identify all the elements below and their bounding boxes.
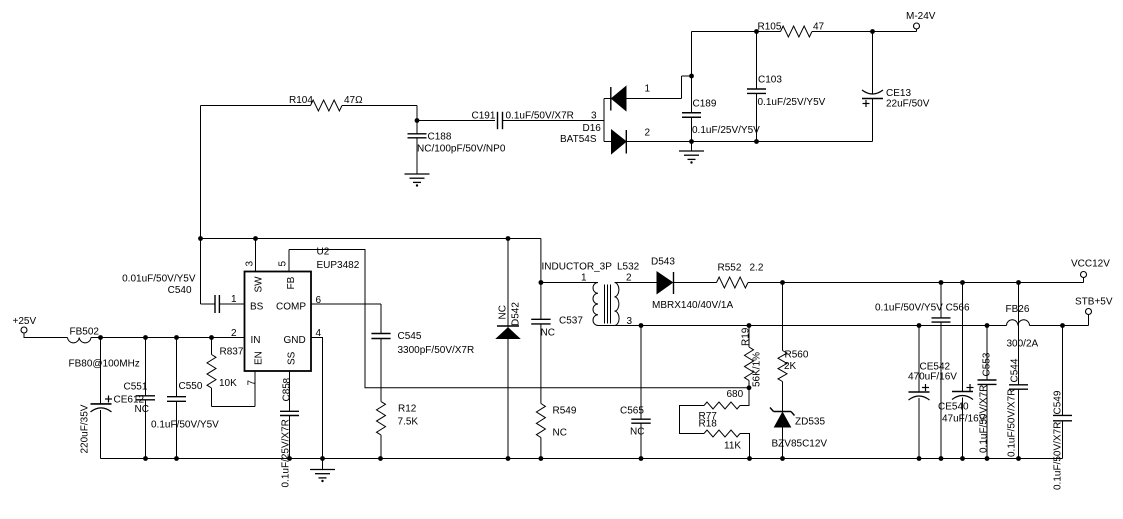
svg-text:1: 1 <box>231 294 237 305</box>
resistor R104 <box>311 100 343 111</box>
wire +25V to FB502 <box>24 333 68 338</box>
node C103 bottom <box>754 139 759 144</box>
svg-text:5: 5 <box>278 261 289 267</box>
node R12 bottom <box>378 456 383 461</box>
capacitor C191 <box>497 112 499 129</box>
svg-text:2: 2 <box>626 273 632 284</box>
svg-text:R560: R560 <box>785 350 809 361</box>
inductor L532 left winding <box>593 283 598 326</box>
svg-text:0.1uF/50V/X7R: 0.1uF/50V/X7R <box>1053 422 1064 490</box>
capacitor C540 <box>214 295 216 313</box>
svg-text:SS: SS <box>287 351 298 365</box>
inductor L532 right winding <box>615 283 620 326</box>
svg-text:680: 680 <box>727 389 744 400</box>
terminal M-24V <box>914 23 920 29</box>
svg-text:C550: C550 <box>179 381 203 392</box>
ground symbol main <box>322 459 324 470</box>
node C566 top on VCC rail <box>939 280 944 285</box>
node C551 top <box>143 335 148 340</box>
resistor R560 <box>782 283 784 351</box>
svg-text:C537: C537 <box>559 316 583 327</box>
node C553 bottom <box>985 456 990 461</box>
svg-text:0.1uF/50V/Y5V: 0.1uF/50V/Y5V <box>151 420 219 431</box>
svg-text:U2: U2 <box>317 247 330 258</box>
node D542 bottom <box>506 456 511 461</box>
capacitor C537 <box>540 283 542 320</box>
node CE542 bottom <box>917 456 922 461</box>
capacitor C550 <box>176 338 178 397</box>
node R19 top on STB rail <box>747 323 752 328</box>
node C189 bottom <box>689 139 694 144</box>
svg-text:R552: R552 <box>718 263 742 274</box>
svg-text:SW: SW <box>254 276 265 293</box>
node D16 pin1 / C189 <box>689 74 694 79</box>
op-amp U2 EUP3482 regulator box <box>245 272 312 372</box>
svg-text:IN: IN <box>251 335 261 346</box>
pin 5 FB stub <box>288 250 290 272</box>
capacitor CE612 electrolytic <box>100 338 102 404</box>
wire C191 left <box>417 120 495 122</box>
svg-text:R837: R837 <box>220 347 244 358</box>
node C544 top on VCC rail <box>1016 280 1021 285</box>
wire R105 right to M-24V terminal <box>812 31 917 33</box>
node C85 bottom <box>287 456 292 461</box>
svg-text:C553: C553 <box>982 352 993 376</box>
capacitor C85 <box>280 410 299 412</box>
capacitor CE542 electrolytic <box>918 326 920 393</box>
capacitor C565 <box>640 326 642 420</box>
svg-text:CE13: CE13 <box>886 88 911 99</box>
svg-text:56K/1%: 56K/1% <box>752 352 763 387</box>
capacitor C549 <box>1062 326 1064 416</box>
svg-text:0.1uF/25V/Y5V: 0.1uF/25V/Y5V <box>758 97 826 108</box>
wire SS pin 8 / C85 <box>289 371 291 411</box>
svg-text:NC: NC <box>135 404 149 415</box>
node R18 bottom <box>747 456 752 461</box>
svg-text:GND: GND <box>284 335 306 346</box>
svg-text:22uF/50V: 22uF/50V <box>886 99 930 110</box>
svg-text:2: 2 <box>645 128 651 139</box>
svg-text:300/2A: 300/2A <box>1007 339 1039 350</box>
svg-text:2.2: 2.2 <box>750 263 764 274</box>
wire left column to C540 <box>200 239 202 305</box>
wire C191 to D16 pin 3 <box>503 120 605 122</box>
svg-text:0.01uF/50V/Y5V: 0.01uF/50V/Y5V <box>122 274 196 285</box>
capacitor C188 <box>416 121 418 135</box>
terminal +25V <box>21 327 27 333</box>
resistor R77 680 <box>740 388 749 406</box>
capacitor C551 <box>145 338 147 396</box>
svg-text:C545: C545 <box>398 331 422 342</box>
zener diode ZD535 <box>774 411 792 413</box>
svg-text:NC: NC <box>498 305 509 319</box>
svg-text:D542: D542 <box>511 302 522 326</box>
node C565 top / pin 3 <box>639 323 644 328</box>
svg-text:MBRX140/40V/1A: MBRX140/40V/1A <box>652 300 733 311</box>
wire GND pin 4 down <box>311 338 323 459</box>
svg-text:470uF/16V: 470uF/16V <box>908 372 957 383</box>
svg-text:C191: C191 <box>472 111 496 122</box>
capacitor CE540 electrolytic <box>962 283 964 392</box>
wire D543 to R552 <box>674 282 717 284</box>
svg-text:11K: 11K <box>724 441 741 452</box>
wire STB rail from pin 3 <box>641 325 1007 327</box>
node R560 top on VCC rail <box>780 280 785 285</box>
svg-text:C551: C551 <box>124 382 148 393</box>
svg-text:R18: R18 <box>699 419 718 430</box>
resistor R19 <box>748 326 750 348</box>
svg-text:STB+5V: STB+5V <box>1075 297 1113 308</box>
svg-text:220uF/35V: 220uF/35V <box>80 404 91 453</box>
node C551 bottom <box>143 456 148 461</box>
svg-text:7.5K: 7.5K <box>398 417 419 428</box>
capacitor C103 <box>756 32 758 90</box>
node C550 bottom <box>174 456 179 461</box>
node CE612 top <box>98 335 103 340</box>
ferrite bead FB502 <box>68 338 92 343</box>
ground below C188 <box>405 173 430 175</box>
wire R837 bottom to EN pin 7 <box>212 406 256 408</box>
svg-text:8: 8 <box>282 378 293 384</box>
node SW pin 3 <box>253 236 258 241</box>
wire input node to IC pin 2 <box>91 337 245 339</box>
node FB / R19 bottom junction <box>747 385 752 390</box>
wire ground rail <box>101 458 1063 460</box>
ferrite bead FB26 <box>1007 320 1030 326</box>
svg-text:FB502: FB502 <box>70 327 100 338</box>
svg-text:NC: NC <box>541 328 555 339</box>
node SW rail left <box>198 236 203 241</box>
svg-text:D16: D16 <box>583 123 602 134</box>
svg-text:NC: NC <box>630 427 644 438</box>
resistor R549 <box>536 404 545 438</box>
svg-text:R105: R105 <box>758 22 782 33</box>
node C544 bottom <box>1016 456 1021 461</box>
svg-text:NC: NC <box>553 428 567 439</box>
pin 3 SW stub <box>255 239 257 272</box>
svg-text:C549: C549 <box>1053 390 1064 414</box>
svg-text:FB80@100MHz: FB80@100MHz <box>69 359 140 370</box>
wire COMP pin 6 to C545 <box>311 303 381 305</box>
svg-text:INDUCTOR_3P: INDUCTOR_3P <box>542 262 613 273</box>
svg-text:3: 3 <box>245 261 256 267</box>
capacitor C189 <box>691 32 693 113</box>
svg-text:R19: R19 <box>741 327 752 346</box>
svg-text:47Ω: 47Ω <box>344 95 363 106</box>
terminal VCC12V <box>1081 272 1087 278</box>
svg-text:1: 1 <box>581 273 587 284</box>
svg-text:CE540: CE540 <box>938 402 969 413</box>
node ZD535 bottom <box>780 456 785 461</box>
ground below C189 <box>691 142 693 152</box>
node CE542 top on STB rail <box>917 323 922 328</box>
svg-text:0.1uF/50V/X7R: 0.1uF/50V/X7R <box>506 111 574 122</box>
capacitor C553 <box>986 326 988 381</box>
node GND pin ground <box>320 456 325 461</box>
svg-text:COMP: COMP <box>276 302 306 313</box>
node CE540 top on VCC rail <box>960 280 965 285</box>
svg-text:3300pF/50V/X7R: 3300pF/50V/X7R <box>398 345 475 356</box>
node CE540 bottom <box>960 456 965 461</box>
node R105 left / C103 top <box>754 29 759 34</box>
resistor R837 <box>211 338 213 355</box>
node C537 top on pin1 wire <box>539 280 544 285</box>
node C566 bottom <box>939 456 944 461</box>
wire pin 2 to D543 <box>615 282 658 284</box>
wire R104 net horizontal <box>201 105 311 107</box>
svg-text:7: 7 <box>247 380 258 386</box>
node C549 top on STB rail <box>1060 323 1065 328</box>
svg-text:C544: C544 <box>1010 358 1021 382</box>
wire SW rail <box>201 238 541 240</box>
svg-text:10K: 10K <box>219 378 237 389</box>
wire R104 right to C188 node <box>342 105 417 107</box>
svg-text:C189: C189 <box>693 99 717 110</box>
wire STB rail to terminal <box>1030 325 1089 327</box>
wire SW rail corner down to pin1 <box>540 239 542 283</box>
node C550 top <box>174 335 179 340</box>
svg-text:BAT54S: BAT54S <box>560 134 597 145</box>
svg-text:1: 1 <box>645 84 651 95</box>
wire pin 1 to inductor <box>541 282 598 284</box>
svg-text:0.1uF/50V/X7R: 0.1uF/50V/X7R <box>979 385 990 453</box>
svg-text:D543: D543 <box>651 257 675 268</box>
svg-text:0.1uF/50V/Y5V C566: 0.1uF/50V/Y5V C566 <box>875 303 970 314</box>
node R837 top <box>209 335 214 340</box>
svg-text:R549: R549 <box>553 406 577 417</box>
svg-text:0.1uF/25V/X7R: 0.1uF/25V/X7R <box>281 419 292 487</box>
capacitor C545 <box>380 304 382 333</box>
diode D543 <box>657 272 673 294</box>
svg-text:0.1uF/50V/X7R: 0.1uF/50V/X7R <box>1007 389 1018 457</box>
svg-text:VCC12V: VCC12V <box>1071 259 1110 270</box>
wire R104 left vertical from SW node column <box>200 106 202 239</box>
diode D16 common vertical <box>603 99 605 142</box>
resistor R552 <box>717 277 749 288</box>
svg-text:R104: R104 <box>289 95 313 106</box>
svg-text:3: 3 <box>591 111 597 122</box>
svg-text:EUP3482: EUP3482 <box>317 260 360 271</box>
svg-text:C565: C565 <box>620 406 644 417</box>
capacitor C566 <box>940 283 942 318</box>
svg-text:ZD535: ZD535 <box>795 417 825 428</box>
node C553 top on STB rail <box>985 323 990 328</box>
node D542 top on SW rail <box>506 236 511 241</box>
node CE13 top <box>870 29 875 34</box>
svg-text:C85: C85 <box>282 383 293 402</box>
capacitor CE13 electrolytic <box>872 32 874 95</box>
svg-text:2K: 2K <box>784 361 797 372</box>
wire winding bottoms / pin 3 <box>598 325 641 327</box>
svg-text:M-24V: M-24V <box>906 11 936 22</box>
svg-text:EN: EN <box>254 351 265 365</box>
svg-text:0.1uF/25V/Y5V: 0.1uF/25V/Y5V <box>692 125 760 136</box>
svg-text:FB: FB <box>286 276 297 289</box>
svg-text:47: 47 <box>813 22 825 33</box>
svg-text:C540: C540 <box>168 285 192 296</box>
svg-text:+25V: +25V <box>13 316 37 327</box>
svg-text:BZV85C12V: BZV85C12V <box>772 439 828 450</box>
svg-text:C103: C103 <box>758 75 782 86</box>
wire pin2 net to CE13 <box>626 141 872 143</box>
svg-text:2: 2 <box>231 328 237 339</box>
diode D16 bottom half (pin 2) <box>604 141 612 143</box>
svg-text:C188: C188 <box>428 132 452 143</box>
svg-text:R12: R12 <box>398 404 417 415</box>
resistor R105 <box>781 26 813 37</box>
diode D16 top half (pin 1) <box>604 98 612 100</box>
resistor R12 <box>377 402 386 436</box>
capacitor C544 <box>1018 283 1020 385</box>
inductor L532 core <box>604 285 606 324</box>
diode D542 (NC) <box>507 239 509 328</box>
wire M-24V rail <box>692 31 781 33</box>
wire VCC12V rail <box>748 282 1084 284</box>
resistor R18 11K <box>704 430 740 437</box>
node C565 bottom <box>639 456 644 461</box>
node C188/C191 junction <box>415 118 420 123</box>
svg-text:L532: L532 <box>617 262 640 273</box>
svg-text:NC/100pF/50V/NP0: NC/100pF/50V/NP0 <box>417 144 506 155</box>
wire FB pin 5 net <box>289 250 749 388</box>
node R549 bottom <box>539 456 544 461</box>
terminal STB+5V <box>1086 309 1092 315</box>
svg-text:BS: BS <box>250 302 264 313</box>
svg-text:FB26: FB26 <box>1006 304 1030 315</box>
